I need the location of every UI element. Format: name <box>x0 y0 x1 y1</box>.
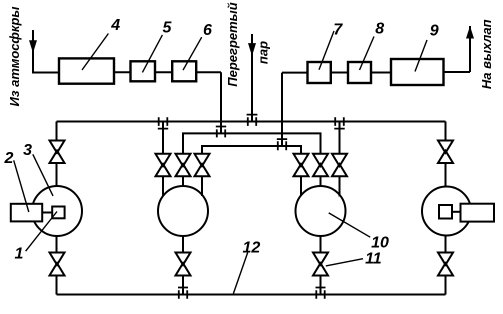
svg-text:7: 7 <box>333 22 343 39</box>
svg-text:На выхлап: На выхлап <box>479 19 494 89</box>
svg-text:9: 9 <box>430 23 439 40</box>
svg-text:2: 2 <box>3 150 13 167</box>
svg-text:11: 11 <box>365 250 382 267</box>
svg-text:Перегретый: Перегретый <box>225 2 240 87</box>
svg-text:6: 6 <box>203 22 212 39</box>
svg-text:8: 8 <box>375 21 384 38</box>
svg-text:Из атмосфкры: Из атмосфкры <box>7 7 22 107</box>
svg-text:12: 12 <box>243 239 261 256</box>
svg-text:5: 5 <box>162 20 172 37</box>
svg-text:10: 10 <box>371 234 389 251</box>
svg-text:4: 4 <box>110 17 120 34</box>
svg-text:пар: пар <box>256 41 271 64</box>
svg-text:3: 3 <box>23 142 32 159</box>
svg-text:1: 1 <box>15 245 24 262</box>
